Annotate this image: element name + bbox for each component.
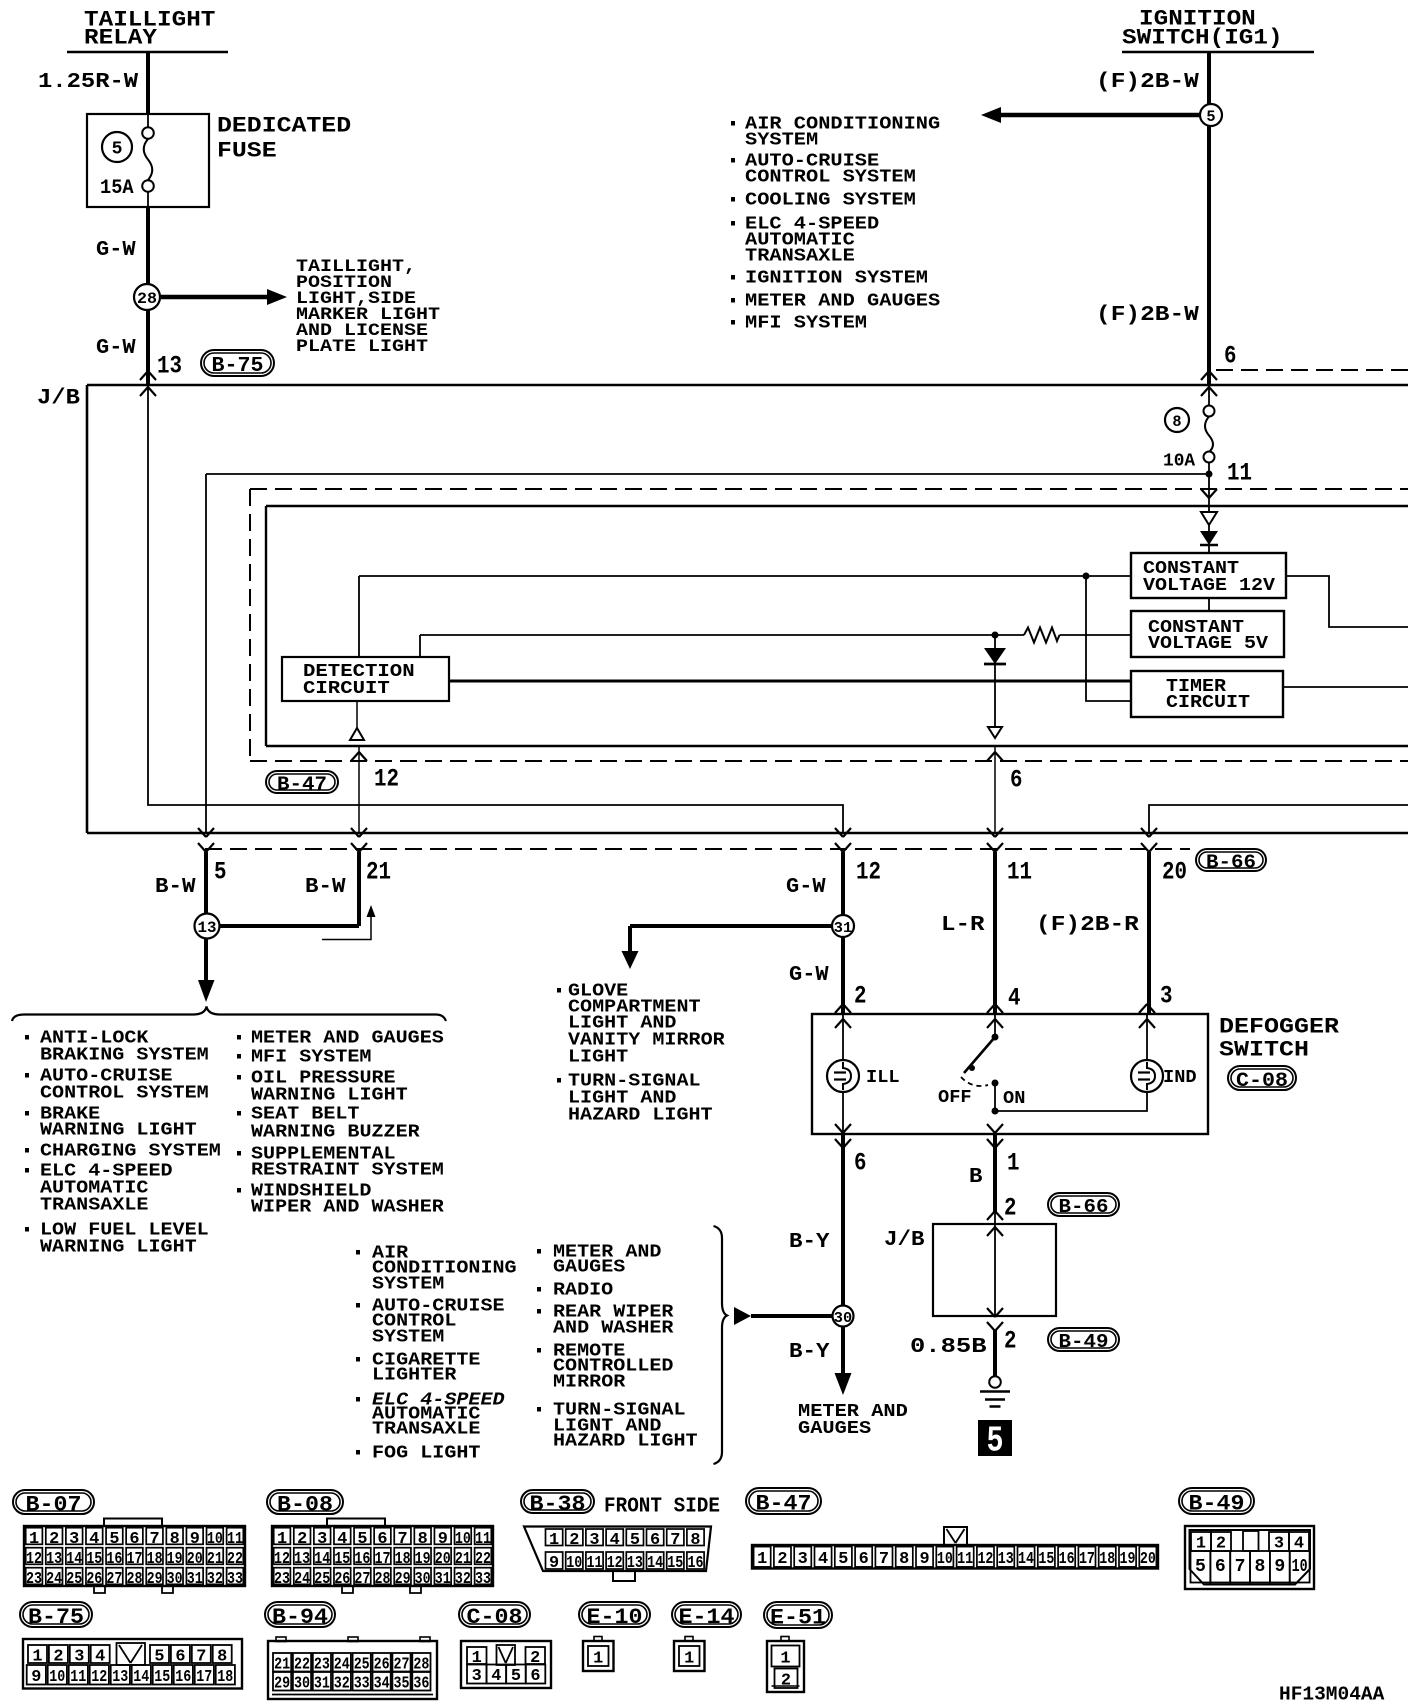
svg-text:14: 14 bbox=[1018, 1550, 1034, 1569]
svg-text:G-W: G-W bbox=[96, 238, 136, 262]
svg-text:15: 15 bbox=[154, 1668, 170, 1687]
svg-text:6: 6 bbox=[129, 1530, 139, 1549]
svg-text:15A: 15A bbox=[100, 177, 134, 200]
svg-text:B-Y: B-Y bbox=[789, 1230, 830, 1254]
svg-text:17: 17 bbox=[375, 1550, 391, 1569]
svg-text:B-W: B-W bbox=[305, 875, 346, 899]
svg-text:29: 29 bbox=[274, 1675, 290, 1694]
svg-text:B-66: B-66 bbox=[1206, 852, 1256, 874]
svg-text:27: 27 bbox=[106, 1570, 122, 1589]
svg-text:12: 12 bbox=[26, 1550, 42, 1569]
svg-text:17: 17 bbox=[196, 1668, 212, 1687]
svg-text:HAZARD LIGHT: HAZARD LIGHT bbox=[553, 1432, 698, 1452]
svg-text:18: 18 bbox=[217, 1668, 233, 1687]
svg-text:1: 1 bbox=[593, 1650, 603, 1669]
svg-text:CIRCUIT: CIRCUIT bbox=[1166, 691, 1250, 713]
svg-text:WARNING LIGHT: WARNING LIGHT bbox=[40, 1238, 197, 1258]
svg-text:E-14: E-14 bbox=[679, 1605, 735, 1630]
svg-text:3: 3 bbox=[798, 1550, 808, 1569]
svg-text:6: 6 bbox=[1224, 342, 1237, 371]
svg-text:1: 1 bbox=[549, 1531, 559, 1550]
svg-text:MFI SYSTEM: MFI SYSTEM bbox=[251, 1048, 372, 1068]
svg-text:CONTROL SYSTEM: CONTROL SYSTEM bbox=[40, 1084, 209, 1104]
svg-text:CIRCUIT: CIRCUIT bbox=[303, 677, 390, 699]
svg-text:5: 5 bbox=[154, 1648, 164, 1667]
svg-text:B-08: B-08 bbox=[277, 1493, 333, 1518]
svg-text:13: 13 bbox=[157, 352, 182, 381]
svg-text:(F)2B-W: (F)2B-W bbox=[1096, 303, 1199, 327]
svg-text:20: 20 bbox=[1140, 1550, 1156, 1569]
svg-text:14: 14 bbox=[314, 1550, 330, 1569]
svg-text:3: 3 bbox=[472, 1667, 482, 1686]
svg-text:RADIO: RADIO bbox=[553, 1281, 613, 1301]
svg-text:8: 8 bbox=[899, 1550, 909, 1569]
svg-text:SWITCH(IG1): SWITCH(IG1) bbox=[1122, 26, 1283, 51]
svg-text:10: 10 bbox=[566, 1554, 582, 1573]
svg-text:1.25R-W: 1.25R-W bbox=[38, 70, 138, 94]
svg-text:18: 18 bbox=[1099, 1550, 1115, 1569]
svg-text:FRONT SIDE: FRONT SIDE bbox=[604, 1496, 720, 1519]
svg-text:15: 15 bbox=[1038, 1550, 1054, 1569]
svg-text:VOLTAGE 5V: VOLTAGE 5V bbox=[1148, 632, 1269, 654]
svg-text:GAUGES: GAUGES bbox=[798, 1417, 871, 1439]
svg-text:J/B: J/B bbox=[884, 1228, 925, 1252]
svg-text:1: 1 bbox=[780, 1650, 790, 1669]
svg-text:28: 28 bbox=[127, 1570, 143, 1589]
svg-text:35: 35 bbox=[394, 1675, 410, 1694]
svg-text:20: 20 bbox=[187, 1550, 203, 1569]
svg-text:5: 5 bbox=[109, 1530, 119, 1549]
svg-text:3: 3 bbox=[74, 1648, 84, 1667]
svg-text:HF13M04AA: HF13M04AA bbox=[1279, 1684, 1385, 1706]
svg-text:9: 9 bbox=[438, 1530, 448, 1549]
svg-text:HAZARD LIGHT: HAZARD LIGHT bbox=[568, 1106, 713, 1126]
svg-text:TRANSAXLE: TRANSAXLE bbox=[372, 1420, 481, 1440]
svg-text:COOLING SYSTEM: COOLING SYSTEM bbox=[745, 191, 916, 211]
svg-text:34: 34 bbox=[374, 1675, 390, 1694]
svg-text:8: 8 bbox=[1172, 413, 1181, 431]
svg-text:C-08: C-08 bbox=[467, 1605, 523, 1630]
svg-text:8: 8 bbox=[217, 1648, 227, 1667]
svg-text:5: 5 bbox=[838, 1550, 848, 1569]
svg-text:E-51: E-51 bbox=[770, 1606, 826, 1631]
svg-text:2: 2 bbox=[1004, 1194, 1017, 1223]
svg-text:SWITCH: SWITCH bbox=[1219, 1038, 1309, 1063]
svg-text:B-49: B-49 bbox=[1059, 1331, 1109, 1353]
svg-text:16: 16 bbox=[688, 1554, 704, 1573]
svg-text:B-38: B-38 bbox=[530, 1492, 586, 1517]
svg-text:27: 27 bbox=[354, 1570, 370, 1589]
svg-text:7: 7 bbox=[398, 1530, 408, 1549]
svg-text:29: 29 bbox=[147, 1570, 163, 1589]
svg-text:12: 12 bbox=[91, 1668, 107, 1687]
svg-text:5: 5 bbox=[214, 858, 227, 887]
svg-text:DEDICATED: DEDICATED bbox=[217, 114, 351, 139]
svg-text:6: 6 bbox=[650, 1531, 660, 1550]
svg-text:31: 31 bbox=[834, 921, 853, 937]
svg-text:B-47: B-47 bbox=[756, 1492, 812, 1517]
svg-text:16: 16 bbox=[354, 1550, 370, 1569]
svg-text:B-W: B-W bbox=[155, 875, 196, 899]
svg-text:2: 2 bbox=[49, 1530, 59, 1549]
svg-text:11: 11 bbox=[70, 1668, 86, 1687]
svg-text:10: 10 bbox=[207, 1530, 223, 1549]
svg-text:B: B bbox=[969, 1165, 983, 1189]
svg-text:30: 30 bbox=[294, 1675, 310, 1694]
svg-text:21: 21 bbox=[366, 858, 391, 887]
svg-text:0.85B: 0.85B bbox=[910, 1335, 987, 1359]
svg-text:ILL: ILL bbox=[866, 1066, 900, 1088]
svg-text:8: 8 bbox=[170, 1530, 180, 1549]
svg-text:17: 17 bbox=[127, 1550, 143, 1569]
svg-text:31: 31 bbox=[187, 1570, 203, 1589]
svg-text:5: 5 bbox=[1195, 1557, 1206, 1577]
svg-text:7: 7 bbox=[670, 1531, 680, 1550]
svg-text:15: 15 bbox=[86, 1550, 102, 1569]
svg-text:19: 19 bbox=[415, 1550, 431, 1569]
svg-text:16: 16 bbox=[1059, 1550, 1075, 1569]
svg-text:CONTROL SYSTEM: CONTROL SYSTEM bbox=[745, 168, 916, 188]
svg-text:FUSE: FUSE bbox=[217, 139, 277, 164]
svg-text:4: 4 bbox=[1008, 984, 1021, 1013]
svg-text:12: 12 bbox=[274, 1550, 290, 1569]
svg-text:16: 16 bbox=[175, 1668, 191, 1687]
svg-text:14: 14 bbox=[647, 1554, 663, 1573]
svg-text:25: 25 bbox=[66, 1570, 82, 1589]
svg-text:VOLTAGE 12V: VOLTAGE 12V bbox=[1143, 574, 1276, 596]
svg-text:WARNING BUZZER: WARNING BUZZER bbox=[251, 1123, 420, 1143]
svg-text:B-75: B-75 bbox=[212, 355, 264, 378]
svg-text:(F)2B-R: (F)2B-R bbox=[1036, 913, 1139, 937]
svg-text:6: 6 bbox=[859, 1550, 869, 1569]
svg-text:13: 13 bbox=[294, 1550, 310, 1569]
svg-text:E-10: E-10 bbox=[587, 1605, 643, 1630]
svg-text:19: 19 bbox=[167, 1550, 183, 1569]
svg-text:10: 10 bbox=[937, 1550, 953, 1569]
svg-text:22: 22 bbox=[475, 1550, 491, 1569]
svg-text:G-W: G-W bbox=[789, 963, 829, 987]
svg-text:7: 7 bbox=[879, 1550, 889, 1569]
svg-text:13: 13 bbox=[998, 1550, 1014, 1569]
svg-text:B-47: B-47 bbox=[277, 774, 327, 796]
svg-text:3: 3 bbox=[589, 1531, 599, 1550]
svg-text:MFI SYSTEM: MFI SYSTEM bbox=[745, 314, 867, 334]
svg-text:METER AND GAUGES: METER AND GAUGES bbox=[251, 1029, 444, 1049]
svg-text:21: 21 bbox=[455, 1550, 471, 1569]
svg-text:11: 11 bbox=[1227, 459, 1252, 488]
svg-text:G-W: G-W bbox=[96, 336, 136, 360]
svg-text:31: 31 bbox=[314, 1675, 330, 1694]
svg-text:IND: IND bbox=[1163, 1066, 1197, 1088]
svg-text:11: 11 bbox=[475, 1530, 491, 1549]
svg-text:2: 2 bbox=[854, 982, 867, 1011]
svg-text:IGNITION SYSTEM: IGNITION SYSTEM bbox=[745, 269, 928, 289]
svg-text:30: 30 bbox=[415, 1570, 431, 1589]
svg-text:18: 18 bbox=[395, 1550, 411, 1569]
svg-text:OFF: OFF bbox=[938, 1086, 972, 1108]
svg-text:2: 2 bbox=[297, 1530, 307, 1549]
svg-text:15: 15 bbox=[334, 1550, 350, 1569]
svg-text:16: 16 bbox=[106, 1550, 122, 1569]
svg-text:1: 1 bbox=[757, 1550, 767, 1569]
svg-text:19: 19 bbox=[1120, 1550, 1136, 1569]
svg-text:RESTRAINT SYSTEM: RESTRAINT SYSTEM bbox=[251, 1161, 444, 1181]
svg-text:B-75: B-75 bbox=[28, 1605, 84, 1630]
svg-text:SYSTEM: SYSTEM bbox=[372, 1275, 444, 1295]
svg-text:1: 1 bbox=[29, 1530, 39, 1549]
svg-text:3: 3 bbox=[69, 1530, 79, 1549]
svg-text:13: 13 bbox=[46, 1550, 62, 1569]
svg-text:1: 1 bbox=[1007, 1149, 1020, 1178]
svg-text:4: 4 bbox=[337, 1530, 347, 1549]
svg-text:18: 18 bbox=[147, 1550, 163, 1569]
svg-text:CHARGING SYSTEM: CHARGING SYSTEM bbox=[40, 1142, 221, 1162]
svg-text:B-49: B-49 bbox=[1189, 1492, 1245, 1517]
svg-text:6: 6 bbox=[175, 1648, 185, 1667]
svg-text:28: 28 bbox=[137, 290, 157, 308]
svg-text:9: 9 bbox=[31, 1668, 41, 1687]
svg-text:GAUGES: GAUGES bbox=[553, 1258, 625, 1278]
svg-text:RELAY: RELAY bbox=[84, 26, 158, 51]
svg-text:11: 11 bbox=[1007, 858, 1032, 887]
svg-text:32: 32 bbox=[207, 1570, 223, 1589]
svg-text:4: 4 bbox=[89, 1530, 99, 1549]
svg-text:B-94: B-94 bbox=[272, 1605, 328, 1630]
svg-text:8: 8 bbox=[418, 1530, 428, 1549]
svg-text:TRANSAXLE: TRANSAXLE bbox=[40, 1196, 149, 1216]
svg-text:30: 30 bbox=[834, 1311, 852, 1327]
svg-text:11: 11 bbox=[227, 1530, 243, 1549]
svg-text:32: 32 bbox=[334, 1675, 350, 1694]
svg-text:15: 15 bbox=[667, 1554, 683, 1573]
svg-text:14: 14 bbox=[66, 1550, 82, 1569]
svg-text:9: 9 bbox=[549, 1554, 559, 1573]
svg-text:14: 14 bbox=[133, 1668, 149, 1687]
svg-text:10: 10 bbox=[49, 1668, 65, 1687]
svg-text:6: 6 bbox=[377, 1530, 387, 1549]
svg-text:24: 24 bbox=[46, 1570, 62, 1589]
svg-text:WARNING LIGHT: WARNING LIGHT bbox=[40, 1121, 197, 1141]
svg-text:6: 6 bbox=[1215, 1557, 1226, 1577]
svg-text:LIGHT: LIGHT bbox=[568, 1048, 628, 1068]
svg-text:SYSTEM: SYSTEM bbox=[372, 1328, 444, 1348]
svg-text:WARNING LIGHT: WARNING LIGHT bbox=[251, 1086, 408, 1106]
svg-text:13: 13 bbox=[198, 919, 217, 937]
svg-text:12: 12 bbox=[977, 1550, 993, 1569]
svg-text:12: 12 bbox=[607, 1554, 623, 1573]
svg-text:2: 2 bbox=[569, 1531, 579, 1550]
svg-text:SEAT BELT: SEAT BELT bbox=[251, 1105, 360, 1125]
svg-text:10A: 10A bbox=[1163, 452, 1195, 472]
svg-text:4: 4 bbox=[491, 1667, 501, 1686]
svg-text:LIGHTER: LIGHTER bbox=[372, 1366, 457, 1386]
svg-text:30: 30 bbox=[167, 1570, 183, 1589]
svg-text:2: 2 bbox=[53, 1648, 63, 1667]
svg-text:3: 3 bbox=[1160, 982, 1173, 1011]
svg-text:33: 33 bbox=[475, 1570, 491, 1589]
svg-text:33: 33 bbox=[354, 1675, 370, 1694]
svg-text:20: 20 bbox=[435, 1550, 451, 1569]
svg-text:5: 5 bbox=[357, 1530, 367, 1549]
svg-text:22: 22 bbox=[227, 1550, 243, 1569]
svg-text:21: 21 bbox=[207, 1550, 223, 1569]
svg-text:5: 5 bbox=[511, 1667, 521, 1686]
svg-text:MIRROR: MIRROR bbox=[553, 1373, 625, 1393]
svg-text:8: 8 bbox=[690, 1531, 700, 1550]
svg-text:5: 5 bbox=[112, 140, 123, 160]
svg-text:10: 10 bbox=[455, 1530, 471, 1549]
svg-text:7: 7 bbox=[196, 1648, 206, 1667]
svg-text:33: 33 bbox=[227, 1570, 243, 1589]
svg-text:5: 5 bbox=[987, 1421, 1004, 1462]
svg-text:AND WASHER: AND WASHER bbox=[553, 1319, 674, 1339]
svg-text:4: 4 bbox=[818, 1550, 828, 1569]
svg-text:29: 29 bbox=[395, 1570, 411, 1589]
svg-text:9: 9 bbox=[919, 1550, 929, 1569]
svg-text:5: 5 bbox=[1206, 108, 1215, 126]
svg-text:PLATE LIGHT: PLATE LIGHT bbox=[296, 338, 428, 357]
svg-text:4: 4 bbox=[610, 1531, 620, 1550]
svg-text:9: 9 bbox=[190, 1530, 200, 1549]
svg-text:13: 13 bbox=[112, 1668, 128, 1687]
svg-text:L-R: L-R bbox=[941, 913, 985, 937]
svg-text:1: 1 bbox=[32, 1648, 42, 1667]
svg-text:25: 25 bbox=[314, 1570, 330, 1589]
svg-text:WIPER AND WASHER: WIPER AND WASHER bbox=[251, 1198, 444, 1218]
svg-text:2: 2 bbox=[1004, 1327, 1017, 1356]
svg-text:32: 32 bbox=[455, 1570, 471, 1589]
svg-text:FOG LIGHT: FOG LIGHT bbox=[372, 1444, 481, 1464]
svg-text:TRANSAXLE: TRANSAXLE bbox=[745, 247, 855, 267]
svg-text:1: 1 bbox=[277, 1530, 287, 1549]
svg-text:4: 4 bbox=[95, 1648, 105, 1667]
svg-text:23: 23 bbox=[26, 1570, 42, 1589]
svg-text:DEFOGGER: DEFOGGER bbox=[1219, 1015, 1340, 1040]
svg-text:G-W: G-W bbox=[786, 875, 826, 899]
svg-text:24: 24 bbox=[294, 1570, 310, 1589]
svg-text:11: 11 bbox=[587, 1554, 603, 1573]
svg-text:J/B: J/B bbox=[37, 386, 80, 411]
svg-text:(F)2B-W: (F)2B-W bbox=[1096, 70, 1199, 94]
svg-text:C-08: C-08 bbox=[1236, 1070, 1288, 1093]
svg-text:B-Y: B-Y bbox=[789, 1340, 830, 1364]
svg-text:6: 6 bbox=[1010, 766, 1023, 795]
svg-text:17: 17 bbox=[1079, 1550, 1095, 1569]
svg-text:3: 3 bbox=[317, 1530, 327, 1549]
svg-text:12: 12 bbox=[374, 765, 399, 794]
svg-text:9: 9 bbox=[1274, 1557, 1285, 1577]
svg-text:7: 7 bbox=[1235, 1557, 1246, 1577]
svg-text:13: 13 bbox=[627, 1554, 643, 1573]
svg-text:31: 31 bbox=[435, 1570, 451, 1589]
svg-text:SYSTEM: SYSTEM bbox=[745, 131, 818, 151]
svg-text:ON: ON bbox=[1003, 1087, 1025, 1109]
svg-text:METER AND GAUGES: METER AND GAUGES bbox=[745, 292, 940, 312]
svg-text:11: 11 bbox=[957, 1550, 973, 1569]
svg-text:20: 20 bbox=[1162, 858, 1187, 887]
svg-text:28: 28 bbox=[375, 1570, 391, 1589]
svg-text:23: 23 bbox=[274, 1570, 290, 1589]
svg-text:2: 2 bbox=[777, 1550, 787, 1569]
svg-text:7: 7 bbox=[150, 1530, 160, 1549]
svg-text:B-66: B-66 bbox=[1059, 1196, 1109, 1218]
svg-text:8: 8 bbox=[1255, 1557, 1266, 1577]
svg-text:36: 36 bbox=[413, 1675, 429, 1694]
svg-text:5: 5 bbox=[630, 1531, 640, 1550]
svg-text:BRAKING SYSTEM: BRAKING SYSTEM bbox=[40, 1046, 209, 1066]
svg-text:2: 2 bbox=[781, 1672, 791, 1691]
svg-text:6: 6 bbox=[530, 1667, 540, 1686]
svg-text:1: 1 bbox=[684, 1650, 694, 1669]
svg-text:B-07: B-07 bbox=[26, 1493, 82, 1518]
svg-text:10: 10 bbox=[1292, 1557, 1308, 1577]
svg-text:6: 6 bbox=[854, 1149, 867, 1178]
svg-text:12: 12 bbox=[856, 858, 881, 887]
